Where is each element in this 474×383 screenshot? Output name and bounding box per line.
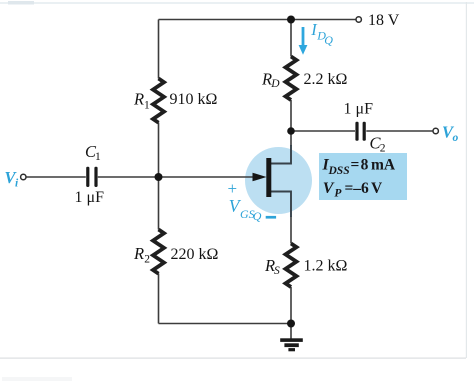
- svg-text:2: 2: [144, 253, 150, 265]
- svg-text:Q: Q: [324, 33, 333, 47]
- svg-text:R: R: [133, 244, 144, 263]
- svg-text:V: V: [371, 180, 383, 197]
- svg-text:910 kΩ: 910 kΩ: [170, 91, 218, 108]
- svg-text:S: S: [274, 265, 280, 277]
- svg-text:1: 1: [95, 151, 101, 163]
- svg-text:1: 1: [144, 100, 150, 112]
- svg-text:1 μF: 1 μF: [75, 189, 105, 206]
- svg-text:D: D: [270, 78, 280, 90]
- svg-text:mA: mA: [371, 156, 396, 173]
- svg-text:=: =: [351, 156, 360, 173]
- svg-text:220 kΩ: 220 kΩ: [171, 246, 219, 263]
- svg-text:V: V: [323, 180, 335, 197]
- svg-text:R: R: [133, 90, 144, 109]
- svg-text:P: P: [334, 187, 342, 199]
- svg-text:2.2 kΩ: 2.2 kΩ: [304, 71, 348, 88]
- svg-text:18 V: 18 V: [368, 12, 400, 29]
- svg-text:Q: Q: [253, 209, 262, 223]
- svg-text:1.2 kΩ: 1.2 kΩ: [304, 258, 348, 275]
- svg-text:1 μF: 1 μF: [344, 101, 374, 118]
- svg-text:=: =: [345, 180, 354, 197]
- svg-text:2: 2: [380, 143, 386, 155]
- svg-text:–6: –6: [352, 180, 369, 197]
- svg-text:8: 8: [361, 156, 369, 173]
- svg-text:DSS: DSS: [328, 165, 350, 177]
- svg-text:o: o: [453, 132, 459, 144]
